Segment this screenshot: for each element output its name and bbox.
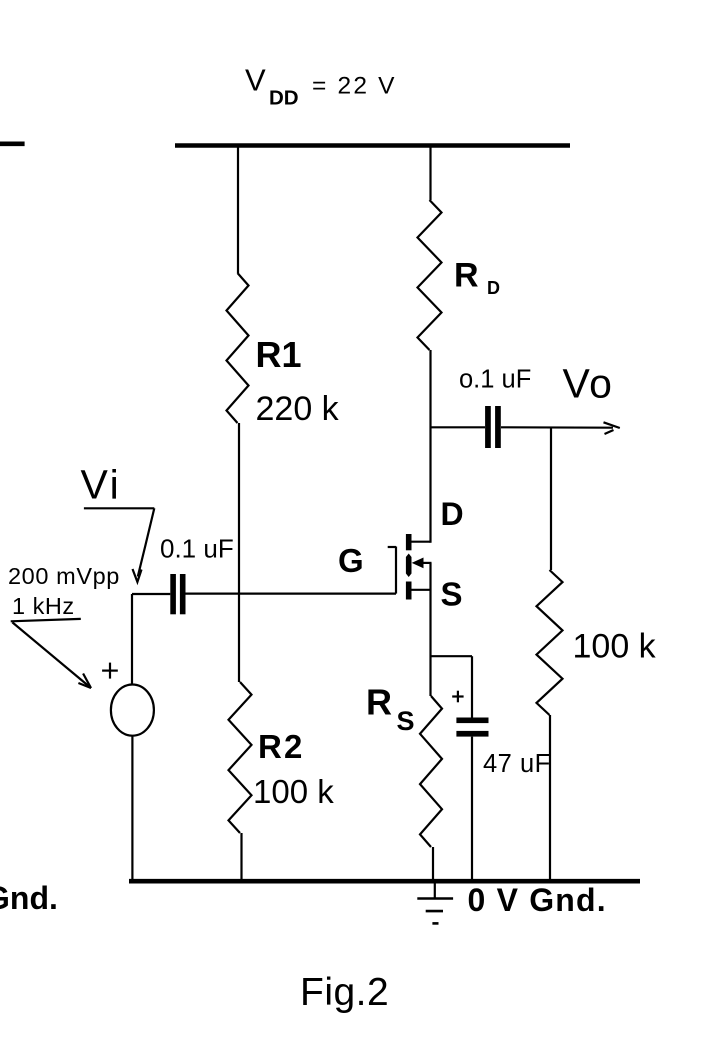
- svg-text:0 V Gnd.: 0 V Gnd.: [468, 882, 607, 918]
- svg-text:100 k: 100 k: [573, 628, 657, 666]
- svg-text:S: S: [397, 706, 415, 736]
- svg-text:Vo: Vo: [563, 361, 614, 407]
- svg-text:R: R: [454, 257, 479, 295]
- svg-text:Vi: Vi: [81, 462, 122, 508]
- svg-text:Fig.2: Fig.2: [300, 971, 389, 1014]
- svg-text:200 mVpp: 200 mVpp: [8, 563, 120, 589]
- svg-text:220 k: 220 k: [256, 390, 340, 428]
- svg-text:1 kHz: 1 kHz: [12, 593, 75, 619]
- svg-text:V: V: [245, 63, 266, 98]
- svg-text:R2: R2: [258, 728, 305, 765]
- svg-text:47 uF: 47 uF: [483, 750, 551, 778]
- svg-text:S: S: [441, 576, 463, 613]
- svg-text:R: R: [366, 682, 392, 723]
- svg-text:0.1 uF: 0.1 uF: [160, 534, 234, 564]
- svg-text:G: G: [338, 542, 364, 579]
- svg-text:Gnd.: Gnd.: [0, 880, 58, 916]
- svg-text:R1: R1: [256, 334, 302, 375]
- svg-text:D: D: [487, 278, 500, 298]
- svg-text:= 22 V: = 22 V: [312, 73, 397, 100]
- svg-text:100 k: 100 k: [253, 773, 334, 810]
- svg-text:o.1 uF: o.1 uF: [459, 366, 531, 394]
- svg-text:DD: DD: [269, 87, 299, 110]
- svg-text:D: D: [441, 496, 464, 532]
